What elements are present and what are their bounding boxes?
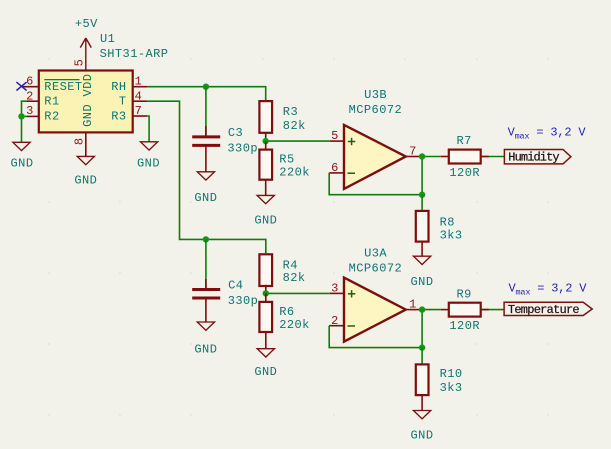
svg-text:VDD: VDD — [81, 74, 95, 97]
svg-text:7: 7 — [409, 145, 417, 159]
wire R9 to label — [481, 309, 504, 311]
U3A minus — [348, 325, 356, 327]
resistor R6 — [259, 302, 272, 332]
resistor R7 — [449, 150, 481, 164]
wire C4 top — [205, 239, 207, 289]
junction R4/R6 — [263, 290, 269, 296]
svg-text:C3: C3 — [228, 126, 243, 140]
ground H — [414, 256, 431, 264]
svg-text:3k3: 3k3 — [440, 228, 463, 242]
op-amp U3B body — [344, 125, 406, 189]
svg-text:R3: R3 — [283, 105, 298, 119]
no-connect X — [16, 82, 26, 90]
svg-text:GND: GND — [254, 365, 277, 379]
hierarchical label Humidity — [504, 150, 571, 164]
svg-text:Humidity: Humidity — [508, 150, 559, 164]
output wire U3A — [420, 309, 441, 311]
svg-text:R7: R7 — [457, 134, 472, 148]
resistor R4 — [259, 254, 272, 286]
pin 2 stub — [27, 100, 39, 102]
wire to R8 — [421, 195, 423, 210]
svg-text:R2: R2 — [44, 110, 59, 124]
svg-text:2: 2 — [331, 314, 339, 328]
svg-text:U3B: U3B — [364, 88, 387, 102]
feedback wire U3A — [329, 326, 422, 348]
wire R7 to label — [481, 156, 505, 158]
svg-text:RH: RH — [111, 80, 126, 94]
svg-text:R10: R10 — [440, 367, 463, 381]
junction feedback U3A — [419, 344, 425, 350]
svg-text:4: 4 — [135, 89, 143, 103]
U3A pin2 stub — [329, 325, 344, 327]
svg-text:R3: R3 — [111, 110, 126, 124]
wire C3 top — [205, 87, 207, 136]
svg-text:3: 3 — [331, 282, 339, 296]
svg-text:6: 6 — [26, 74, 34, 88]
capacitor C3 — [192, 137, 220, 146]
junction pin3 — [18, 113, 24, 119]
ground E — [257, 195, 274, 203]
svg-text:SHT31-ARP: SHT31-ARP — [100, 47, 169, 61]
ground F — [197, 322, 214, 330]
resistor R3 — [259, 101, 272, 133]
pin 4 T stub — [133, 100, 147, 102]
svg-text:GND: GND — [411, 429, 434, 443]
svg-text:GND: GND — [194, 191, 217, 205]
svg-text:1: 1 — [135, 74, 143, 88]
ground D — [197, 172, 214, 180]
U3B minus — [348, 172, 356, 174]
ground I — [414, 411, 431, 419]
svg-text:U3A: U3A — [364, 246, 387, 260]
svg-text:220k: 220k — [279, 318, 310, 332]
R5 top stub — [265, 141, 267, 150]
pin 6 RESET stub — [22, 86, 39, 88]
svg-text:82k: 82k — [283, 119, 306, 133]
svg-text:7: 7 — [135, 104, 143, 118]
svg-text:RESET: RESET — [44, 80, 82, 94]
svg-text:8: 8 — [73, 137, 87, 145]
svg-text:R6: R6 — [279, 305, 294, 319]
svg-text:Temperature: Temperature — [508, 303, 580, 317]
wire junction to R7 — [441, 156, 449, 158]
wire output down U3A — [421, 310, 423, 348]
U3B plus — [348, 138, 355, 145]
svg-text:5: 5 — [73, 59, 87, 67]
junction RH/C3 — [203, 84, 209, 90]
grid dots — [48, 58, 549, 416]
junction T/C4 — [203, 236, 209, 242]
output wire U3B — [420, 156, 441, 158]
pin 1 RH stub — [133, 86, 147, 88]
svg-text:R8: R8 — [440, 215, 455, 229]
wire R5 bottom — [265, 180, 267, 196]
U3A plus — [348, 290, 355, 297]
svg-text:C4: C4 — [228, 278, 243, 292]
U3B pin5 stub — [330, 140, 344, 142]
svg-text:2: 2 — [26, 90, 34, 104]
resistor R8 — [416, 211, 429, 242]
U3A pin3 stub — [330, 292, 344, 294]
svg-text:R9: R9 — [457, 287, 472, 301]
svg-text:330p: 330p — [227, 141, 258, 155]
ground B — [77, 156, 94, 164]
junction R3/R5 — [263, 138, 269, 144]
U3B pin6 stub — [329, 172, 344, 174]
IC U1 body — [39, 71, 133, 133]
svg-text:GND: GND — [11, 156, 34, 170]
resistor R5 — [259, 150, 272, 180]
svg-text:R1: R1 — [44, 95, 59, 109]
R6 top stub — [265, 293, 267, 302]
junction output U3A — [419, 306, 425, 312]
svg-text:MCP6072: MCP6072 — [349, 261, 403, 275]
wire R6 bottom — [265, 332, 267, 349]
svg-text:GND: GND — [411, 275, 434, 289]
wire divider to opamp pin5 — [266, 140, 330, 142]
wire RH net — [147, 87, 266, 101]
resistor R9 — [449, 303, 481, 317]
svg-text:GND: GND — [137, 156, 160, 170]
ground C — [141, 142, 158, 150]
pin 3 stub — [27, 115, 39, 117]
wire C3 bottom — [205, 145, 207, 171]
svg-text:6: 6 — [331, 161, 339, 175]
wire C4 bottom — [205, 298, 207, 322]
pin 7 R3 stub — [133, 115, 147, 117]
svg-text:GND: GND — [254, 213, 277, 227]
svg-text:82k: 82k — [283, 271, 306, 285]
svg-text:T: T — [119, 95, 127, 109]
pin 8 stub — [85, 132, 87, 156]
wire divider to opamp pin3 — [266, 292, 330, 294]
svg-text:GND: GND — [81, 104, 95, 127]
svg-text:3k3: 3k3 — [440, 381, 463, 395]
svg-text:120R: 120R — [449, 319, 480, 333]
ground G — [257, 349, 274, 357]
wire R8 bottom — [421, 241, 423, 257]
wire junction to R9 — [441, 309, 449, 311]
svg-text:5: 5 — [331, 129, 339, 143]
ground A — [13, 142, 30, 150]
feedback wire U3B — [329, 173, 422, 195]
op-amp U3A body — [344, 278, 406, 342]
wire R3 bottom stub — [265, 133, 267, 141]
svg-text:GND: GND — [74, 173, 97, 187]
svg-text:220k: 220k — [279, 165, 310, 179]
resistor R10 — [416, 364, 429, 395]
wire output down — [421, 157, 423, 195]
wire pin7 to ground — [147, 116, 149, 142]
svg-text:1: 1 — [409, 298, 417, 312]
svg-text:U1: U1 — [100, 32, 115, 46]
wire R4 bottom stub — [265, 285, 267, 294]
svg-text:330p: 330p — [228, 294, 259, 308]
U3B output stub — [406, 156, 420, 158]
svg-text:+5V: +5V — [75, 17, 98, 31]
power +5V symbol — [80, 38, 91, 71]
junction output U3B — [419, 153, 425, 159]
svg-text:3: 3 — [26, 104, 34, 118]
svg-text:MCP6072: MCP6072 — [349, 103, 403, 117]
U3A output stub — [406, 309, 420, 311]
wire T net — [147, 101, 266, 253]
hierarchical label Temperature — [504, 302, 592, 315]
junction feedback U3B — [419, 192, 425, 198]
capacitor C4 — [192, 290, 220, 299]
svg-text:GND: GND — [194, 342, 217, 356]
wire pin2/pin3 to ground — [22, 101, 28, 142]
svg-text:120R: 120R — [449, 166, 480, 180]
wire R10 bottom — [421, 395, 423, 410]
wire to R10 — [421, 348, 423, 365]
